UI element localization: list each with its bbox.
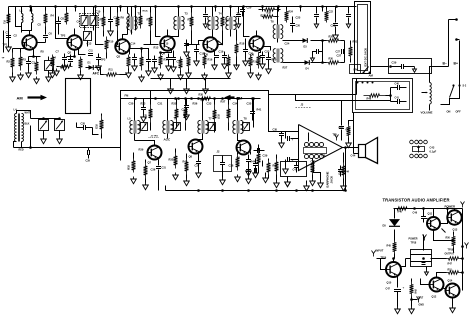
svg-text:T3: T3 <box>185 12 189 16</box>
svg-text:C12: C12 <box>114 16 119 20</box>
svg-text:D5: D5 <box>383 224 387 228</box>
svg-text:C32: C32 <box>182 108 187 112</box>
svg-text:C27: C27 <box>337 54 342 58</box>
svg-text:R33: R33 <box>141 102 146 106</box>
svg-text:POWER: POWER <box>409 238 418 241</box>
svg-text:C11: C11 <box>89 50 94 53</box>
svg-text:C28: C28 <box>81 123 86 126</box>
svg-text:C35: C35 <box>247 102 252 106</box>
svg-text:C39: C39 <box>263 154 268 158</box>
svg-text:B+: B+ <box>454 62 458 66</box>
svg-text:T7: T7 <box>209 117 213 121</box>
svg-text:INPUT: INPUT <box>376 249 384 253</box>
svg-text:R45: R45 <box>387 245 392 248</box>
svg-text:C26: C26 <box>296 25 301 28</box>
svg-text:C19: C19 <box>219 50 224 54</box>
svg-text:J2: J2 <box>217 150 220 154</box>
svg-text:FM: FM <box>125 94 129 98</box>
svg-text:BLK: BLK <box>25 123 30 126</box>
svg-text:C3: C3 <box>32 61 36 65</box>
svg-text:TP5: TP5 <box>333 134 338 137</box>
svg-text:D1: D1 <box>88 62 92 65</box>
svg-text:C5: C5 <box>38 23 42 27</box>
svg-text:R10: R10 <box>109 40 114 44</box>
svg-text:R12: R12 <box>147 18 152 22</box>
svg-text:R24: R24 <box>289 11 294 14</box>
svg-text:C46: C46 <box>413 212 418 215</box>
svg-text:Q14: Q14 <box>448 280 453 283</box>
svg-text:R1: R1 <box>3 21 7 25</box>
svg-text:R5: R5 <box>41 50 45 54</box>
svg-text:C21: C21 <box>249 52 254 56</box>
svg-text:R35: R35 <box>172 102 177 106</box>
svg-text:R17: R17 <box>226 18 231 22</box>
svg-text:R39: R39 <box>139 148 144 152</box>
svg-text:R36: R36 <box>193 102 198 106</box>
svg-text:TP19: TP19 <box>448 249 454 252</box>
svg-text:D3: D3 <box>304 46 308 49</box>
svg-text:C23: C23 <box>265 50 270 54</box>
svg-text:R18: R18 <box>240 42 245 46</box>
svg-text:C38: C38 <box>273 129 278 132</box>
svg-text:R42: R42 <box>183 160 188 164</box>
svg-text:R43: R43 <box>339 126 344 130</box>
svg-text:R50: R50 <box>446 237 451 240</box>
svg-text:Q7: Q7 <box>148 161 152 165</box>
svg-text:R39: R39 <box>127 166 130 171</box>
svg-text:R48: R48 <box>414 290 417 295</box>
svg-text:R41: R41 <box>257 108 262 112</box>
svg-text:R30: R30 <box>329 58 334 61</box>
svg-text:GND: GND <box>419 304 425 307</box>
svg-text:R37: R37 <box>217 115 220 120</box>
svg-text:C31: C31 <box>162 167 167 170</box>
svg-text:C14: C14 <box>131 42 136 46</box>
svg-text:JACK: JACK <box>330 176 334 184</box>
svg-text:R27: R27 <box>283 66 288 70</box>
svg-text:J1 TP4: J1 TP4 <box>151 135 159 138</box>
svg-text:C31: C31 <box>158 102 163 106</box>
svg-text:POWER: POWER <box>445 205 456 209</box>
svg-text:Q3: Q3 <box>117 55 121 59</box>
svg-text:TP18: TP18 <box>411 242 417 245</box>
svg-text:C47: C47 <box>386 288 391 291</box>
svg-text:C40: C40 <box>395 83 400 86</box>
svg-text:R13: R13 <box>154 46 159 50</box>
svg-text:R3: R3 <box>23 58 27 62</box>
svg-text:R23: R23 <box>95 125 98 130</box>
svg-text:OUTPUT: OUTPUT <box>445 253 455 256</box>
svg-text:R9: R9 <box>121 16 125 20</box>
svg-text:Q8: Q8 <box>189 155 193 159</box>
svg-text:R51: R51 <box>448 269 453 272</box>
svg-text:C27: C27 <box>336 51 341 54</box>
svg-text:R38: R38 <box>199 94 204 97</box>
svg-text:R14: R14 <box>164 58 169 62</box>
svg-text:OFF: OFF <box>456 110 462 114</box>
svg-text:C22: C22 <box>329 11 334 14</box>
svg-text:TP: TP <box>2 58 5 60</box>
svg-text:EXT DC JACK: EXT DC JACK <box>364 48 368 67</box>
svg-text:C8: C8 <box>61 17 65 21</box>
svg-text:R31: R31 <box>353 40 358 44</box>
svg-text:R12b: R12b <box>143 11 149 13</box>
svg-text:VOLUME: VOLUME <box>421 111 433 115</box>
svg-text:R37: R37 <box>221 100 226 104</box>
svg-text:C20: C20 <box>247 6 252 10</box>
svg-text:Q10: Q10 <box>387 282 392 285</box>
svg-text:R47: R47 <box>448 263 453 266</box>
svg-text:R20: R20 <box>272 58 277 62</box>
svg-text:C24: C24 <box>285 42 290 46</box>
svg-text:R16: R16 <box>208 58 213 62</box>
svg-text:T8: T8 <box>244 117 248 121</box>
svg-text:B−: B− <box>443 62 447 66</box>
svg-text:S-2: S-2 <box>463 85 467 88</box>
svg-text:C33: C33 <box>207 102 212 106</box>
svg-text:AM: AM <box>369 74 374 78</box>
svg-text:C38: C38 <box>229 164 234 168</box>
svg-text:RED: RED <box>19 149 24 152</box>
svg-text:R32: R32 <box>169 158 174 162</box>
svg-text:R8: R8 <box>100 18 104 22</box>
svg-text:J3: J3 <box>301 104 304 107</box>
svg-text:C6: C6 <box>49 32 53 36</box>
svg-text:C15: C15 <box>164 42 169 46</box>
svg-text:R4: R4 <box>51 14 55 18</box>
svg-text:TP2: TP2 <box>61 34 66 38</box>
svg-text:C10: C10 <box>96 10 101 14</box>
svg-text:C37: C37 <box>195 164 200 168</box>
svg-text:Q13: Q13 <box>453 229 458 232</box>
svg-text:WHT: WHT <box>25 112 31 115</box>
svg-text:C7: C7 <box>56 50 60 54</box>
svg-text:R46: R46 <box>398 211 403 214</box>
svg-text:D4: D4 <box>306 68 310 71</box>
svg-text:FM: FM <box>354 68 359 72</box>
svg-text:C39: C39 <box>392 61 397 65</box>
svg-text:R43: R43 <box>338 171 341 176</box>
svg-text:Q12: Q12 <box>432 296 437 299</box>
svg-text:C1: C1 <box>6 31 10 35</box>
svg-text:C41: C41 <box>395 97 400 100</box>
svg-text:TRANSISTOR AUDIO AMPLIFIER: TRANSISTOR AUDIO AMPLIFIER <box>383 198 450 203</box>
svg-text:R2: R2 <box>7 60 11 64</box>
svg-text:T4: T4 <box>219 12 223 16</box>
svg-text:Q11: Q11 <box>428 213 433 216</box>
svg-text:ON: ON <box>447 110 451 114</box>
svg-text:AM: AM <box>17 96 24 101</box>
svg-text:R19: R19 <box>253 60 258 64</box>
svg-text:TP17: TP17 <box>418 297 424 300</box>
svg-text:0.1µF: 0.1µF <box>430 150 437 154</box>
svg-text:C30: C30 <box>129 102 134 106</box>
svg-text:C25: C25 <box>296 16 301 20</box>
svg-text:TP3: TP3 <box>101 58 106 62</box>
svg-text:C22: C22 <box>331 24 336 28</box>
svg-text:C41: C41 <box>293 168 298 172</box>
svg-text:C18: C18 <box>200 52 205 56</box>
svg-text:Q2: Q2 <box>68 51 72 55</box>
svg-text:C43: C43 <box>430 146 435 150</box>
svg-text:R26: R26 <box>261 14 266 18</box>
svg-text:C9: C9 <box>77 20 81 24</box>
svg-text:R15: R15 <box>188 18 193 22</box>
svg-text:C34: C34 <box>233 102 238 106</box>
svg-text:C44: C44 <box>351 154 356 158</box>
svg-text:L5: L5 <box>128 117 132 121</box>
svg-text:TP6: TP6 <box>321 154 326 158</box>
svg-text:AFC: AFC <box>93 72 100 76</box>
svg-text:C2: C2 <box>14 34 18 38</box>
svg-text:T8: T8 <box>271 20 275 24</box>
svg-text:C29: C29 <box>86 160 91 163</box>
svg-text:R11: R11 <box>109 69 114 72</box>
svg-text:C13: C13 <box>87 42 92 46</box>
svg-text:C36: C36 <box>151 168 156 172</box>
svg-text:C40: C40 <box>346 129 351 132</box>
svg-text:+: + <box>403 286 405 290</box>
svg-text:C16: C16 <box>177 60 182 64</box>
